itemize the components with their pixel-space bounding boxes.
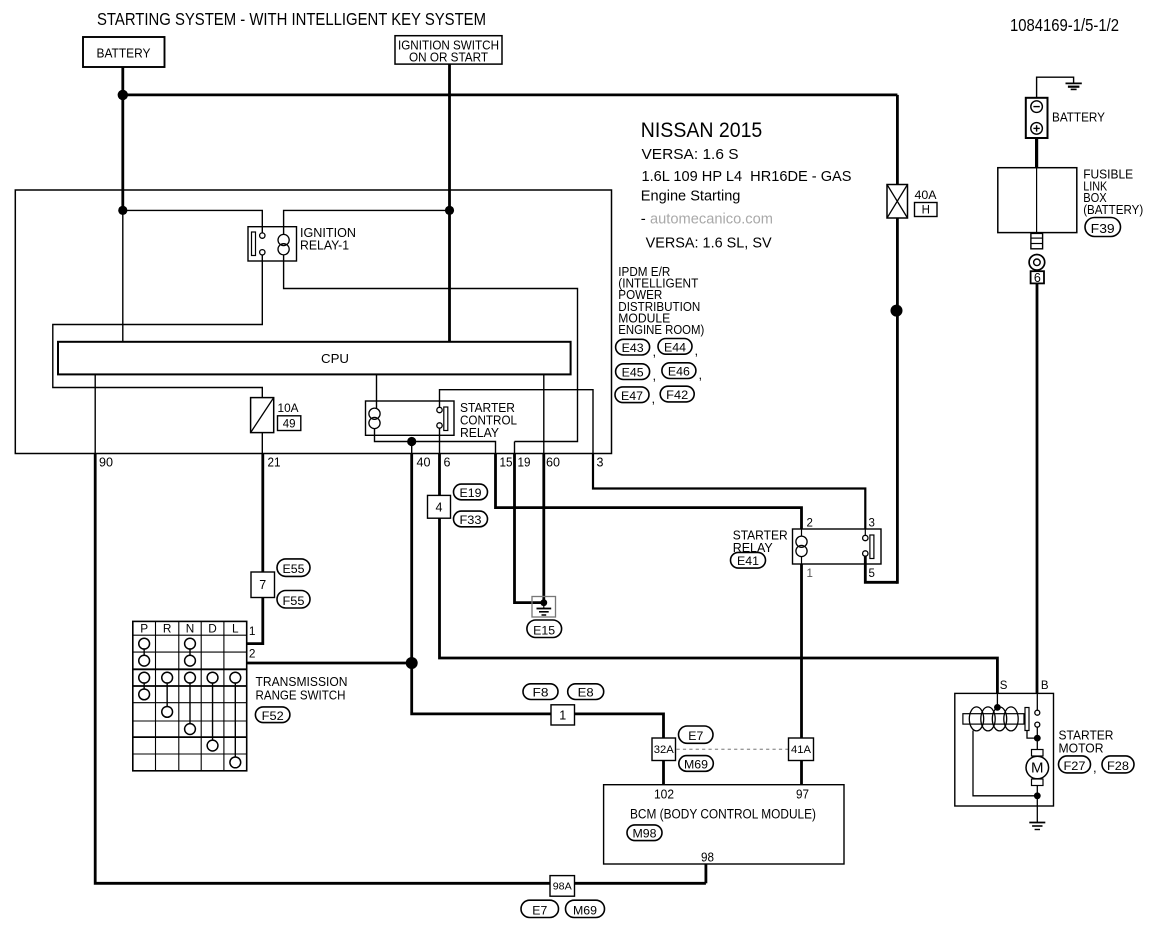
svg-text:1: 1	[807, 568, 813, 580]
starter relay contact pin lower	[863, 551, 868, 556]
starter motor ground symbol	[1029, 822, 1045, 824]
ground E15 symbol	[543, 603, 545, 609]
connector 4 box	[428, 495, 451, 518]
SCR contact pin lower	[437, 423, 442, 428]
svg-text:2: 2	[807, 518, 813, 530]
SCR contact bar	[444, 407, 448, 431]
svg-text:41A: 41A	[791, 744, 812, 756]
node ignition relay coil junction	[445, 206, 454, 215]
svg-text:E7: E7	[532, 903, 547, 917]
svg-text:,: ,	[653, 344, 657, 359]
fusible link box inner wire	[1036, 168, 1038, 233]
svg-text:M69: M69	[573, 903, 597, 917]
solenoid contact pin upper	[1035, 710, 1040, 715]
wire pin40 run	[410, 454, 413, 664]
svg-text:E55: E55	[283, 562, 305, 576]
wire battery to relay contact	[123, 210, 262, 233]
svg-text:E15: E15	[533, 623, 555, 637]
svg-text:STARTER: STARTER	[1059, 729, 1114, 743]
wire pin40 inside	[411, 442, 413, 454]
node TRS junction	[406, 657, 418, 669]
connector ref E47	[615, 387, 649, 403]
node battery junction	[118, 90, 128, 100]
svg-text:E8: E8	[578, 686, 594, 700]
svg-text:1084169-1/5-1/2: 1084169-1/5-1/2	[1010, 15, 1119, 35]
ground E15 node	[540, 599, 547, 606]
connector ref E15	[527, 620, 562, 638]
wire TRS pin2 to junction	[247, 662, 412, 665]
svg-text:6: 6	[1034, 271, 1041, 285]
svg-text:4: 4	[436, 500, 443, 514]
connector ref F42	[660, 386, 694, 402]
svg-text:N: N	[186, 621, 195, 635]
svg-text:F33: F33	[460, 513, 482, 527]
wire SCR contact lower to pin6	[439, 428, 441, 453]
svg-text:15: 15	[500, 456, 513, 470]
wire pin15 run	[496, 454, 802, 530]
connector ref F33	[454, 511, 488, 527]
connector ref E46	[662, 363, 696, 379]
wire plate to B node	[1027, 731, 1037, 739]
wire SCR coil return	[375, 428, 496, 453]
wire battery thin continue to CPU	[122, 210, 124, 341]
svg-text:STARTING SYSTEM - WITH INTELLI: STARTING SYSTEM - WITH INTELLIGENT KEY S…	[97, 9, 486, 29]
svg-text:TRANSMISSION: TRANSMISSION	[256, 675, 348, 689]
wire BCM pin98 drop	[705, 864, 708, 883]
wire relay contact output wrap	[53, 255, 262, 398]
svg-text:,: ,	[652, 391, 656, 406]
node battery tap	[118, 206, 127, 215]
node motor top	[1034, 735, 1041, 742]
svg-text:RELAY-1: RELAY-1	[300, 239, 349, 253]
svg-text:M98: M98	[633, 827, 657, 841]
connector H box	[915, 203, 938, 217]
svg-text:6: 6	[444, 456, 451, 470]
svg-text:BATTERY: BATTERY	[1052, 110, 1105, 125]
svg-text:Engine Starting: Engine Starting	[641, 188, 741, 204]
svg-text:BATTERY: BATTERY	[97, 45, 151, 60]
wire starter relay contact feed	[864, 529, 866, 535]
wire connector1 to 32A	[575, 714, 664, 738]
starter relay contact bar	[870, 535, 874, 559]
connector ref F8	[523, 684, 558, 700]
svg-text:F28: F28	[1107, 759, 1129, 773]
svg-text:F55: F55	[283, 594, 305, 608]
node motor bottom	[1034, 792, 1041, 799]
fuse H 40A symbol	[887, 185, 908, 219]
connector ref E44	[658, 339, 692, 355]
wire solenoid return loop	[973, 731, 1037, 796]
wire starter relay pin1 run	[800, 564, 803, 738]
wire S into solenoid	[996, 693, 998, 707]
svg-text:,: ,	[695, 343, 699, 358]
ignition relay contact pin lower	[260, 250, 265, 255]
connector 49 box	[278, 416, 301, 431]
svg-text:D: D	[208, 621, 217, 635]
svg-text:-: -	[641, 210, 646, 227]
wire pin6 run	[440, 454, 998, 695]
svg-text:E44: E44	[664, 340, 686, 354]
svg-text:MOTOR: MOTOR	[1059, 742, 1104, 756]
connector ref M69	[679, 756, 714, 772]
connector ref E7	[679, 726, 714, 743]
connector 1 box	[551, 705, 575, 725]
starter control relay box	[366, 401, 455, 435]
connector ref E19	[454, 484, 488, 500]
wire 10A fuse to pin21	[261, 433, 263, 454]
wire junction to connector1	[412, 663, 551, 714]
connector ref E45	[616, 364, 650, 380]
svg-text:E47: E47	[621, 389, 643, 403]
dashed link 32A-41A	[677, 748, 789, 750]
connector ref F27	[1059, 756, 1091, 773]
SCR contact pin upper	[437, 407, 442, 412]
svg-text:(BATTERY): (BATTERY)	[1083, 203, 1143, 217]
svg-text:E19: E19	[460, 486, 482, 500]
connector 7 box	[251, 572, 275, 598]
starter motor box	[955, 693, 1054, 806]
connector ref M98	[627, 825, 662, 841]
connector 6 box	[1031, 271, 1044, 283]
battery box (top left)	[83, 37, 165, 67]
svg-text:1.6L 109 HP L4 HR16DE - GAS: 1.6L 109 HP L4 HR16DE - GAS	[642, 169, 852, 185]
svg-text:automecanico.com: automecanico.com	[650, 210, 773, 227]
wire SCR contact upper to pin3	[440, 390, 594, 454]
svg-text:10A: 10A	[278, 401, 300, 415]
svg-text:2: 2	[249, 647, 256, 661]
svg-text:49: 49	[283, 418, 296, 430]
wire pin19 run	[515, 454, 544, 603]
svg-text:ON OR START: ON OR START	[409, 50, 488, 64]
wire B terminal drop	[1036, 693, 1038, 710]
svg-text:F42: F42	[666, 388, 688, 402]
wire relay coil to ignition node	[284, 210, 450, 234]
ignition relay contact bar	[252, 232, 256, 256]
motor M	[1036, 738, 1038, 749]
connector ref E55	[277, 559, 310, 577]
ignition relay contact pin upper	[260, 233, 265, 238]
svg-text:19: 19	[518, 456, 531, 470]
svg-text:NISSAN 2015: NISSAN 2015	[641, 118, 763, 142]
svg-text:32A: 32A	[654, 744, 675, 756]
svg-text:S: S	[1000, 680, 1008, 692]
wire battery to fusible link box	[1035, 138, 1038, 168]
svg-text:VERSA: 1.6 SL, SV: VERSA: 1.6 SL, SV	[646, 235, 772, 251]
svg-text:3: 3	[597, 456, 604, 470]
wire 41A to BCM	[800, 761, 803, 785]
connector ref F39	[1085, 218, 1121, 237]
starter relay contact pin upper	[863, 535, 868, 540]
BCM box	[604, 785, 844, 864]
node solenoid S	[994, 704, 1001, 711]
battery symbol box	[1026, 98, 1048, 138]
ignition relay coil	[278, 234, 289, 245]
wire 40A fuse to starter relay	[896, 218, 899, 584]
solenoid contact plate	[1025, 708, 1029, 731]
svg-text:L: L	[232, 621, 239, 635]
wire relay coil return	[284, 255, 578, 442]
TRS contact circles	[139, 638, 150, 649]
ring terminal symbol	[1029, 254, 1045, 270]
svg-text:R: R	[163, 621, 172, 635]
wire pin21 run	[247, 454, 263, 644]
wire B feed	[1036, 283, 1039, 694]
wire 40A fuse feed	[896, 95, 899, 185]
CPU box	[58, 342, 571, 375]
svg-text:F27: F27	[1064, 759, 1086, 773]
transmission range switch table grid	[133, 621, 247, 770]
svg-text:H: H	[922, 205, 930, 217]
svg-text:ENGINE ROOM): ENGINE ROOM)	[618, 323, 704, 337]
svg-text:98A: 98A	[553, 882, 572, 893]
svg-text:BCM (BODY CONTROL MODULE): BCM (BODY CONTROL MODULE)	[630, 806, 816, 821]
connector ref E41	[731, 552, 766, 568]
svg-text:F39: F39	[1091, 221, 1115, 236]
ignition switch box	[395, 36, 502, 64]
connector ref F28	[1102, 756, 1134, 773]
svg-text:21: 21	[268, 456, 281, 470]
battery ground symbol	[1066, 82, 1082, 84]
svg-text:E7: E7	[688, 729, 703, 743]
wire starter relay coil stubs	[801, 529, 803, 537]
fusible link connector hatch	[1031, 233, 1043, 248]
wire main bus horizontal	[123, 94, 898, 97]
connector 41A box	[789, 738, 814, 761]
svg-text:VERSA: 1.6 S: VERSA: 1.6 S	[642, 147, 739, 163]
svg-text:B: B	[1041, 680, 1049, 692]
connector 98A box	[550, 876, 575, 897]
svg-text:E41: E41	[737, 554, 759, 568]
wire starter relay pin5 link	[865, 556, 897, 582]
wire pin60 run	[542, 454, 545, 604]
wire contact to motor node	[1036, 727, 1038, 738]
svg-text:M: M	[1031, 760, 1044, 777]
SCR coil	[369, 408, 380, 419]
battery minus terminal	[1031, 101, 1043, 113]
wire ignition switch drop	[448, 64, 451, 342]
starter relay box	[793, 529, 882, 564]
svg-text:1: 1	[559, 708, 566, 722]
TRS contact links	[143, 649, 145, 655]
connector ref M69 bottom	[566, 900, 605, 917]
fusible link box	[998, 168, 1077, 233]
svg-text:7: 7	[259, 578, 266, 592]
ignition relay-1 box	[248, 227, 297, 261]
connector ref F52	[255, 707, 290, 723]
wire pin90 run	[95, 454, 706, 884]
solenoid coil and plunger	[963, 714, 1024, 724]
svg-text:,: ,	[653, 368, 657, 383]
svg-text:M69: M69	[684, 758, 708, 772]
svg-text:40A: 40A	[915, 188, 938, 202]
connector ref F55	[277, 591, 310, 609]
connector 32A box	[652, 738, 676, 761]
wire battery drop	[121, 67, 124, 210]
battery plus terminal	[1031, 123, 1043, 135]
svg-text:F52: F52	[262, 709, 284, 723]
svg-text:E43: E43	[622, 341, 644, 355]
wire 32A to BCM	[662, 761, 665, 785]
solenoid contact pin lower	[1035, 722, 1040, 727]
svg-text:P: P	[140, 621, 148, 635]
wire CPU to pin90	[94, 374, 96, 453]
svg-text:,: ,	[699, 367, 703, 382]
svg-text:90: 90	[99, 456, 113, 470]
connector ref E8	[568, 684, 604, 700]
svg-text:,: ,	[1093, 760, 1097, 775]
svg-text:60: 60	[546, 456, 560, 470]
connector ref E7 bottom	[521, 900, 559, 917]
battery ground wire	[1037, 77, 1074, 98]
connector ref E43	[616, 339, 650, 355]
fuse 49 10A symbol	[251, 398, 274, 433]
svg-text:102: 102	[654, 788, 674, 802]
svg-text:98: 98	[701, 850, 714, 864]
wire CPU to pin60	[543, 374, 545, 453]
wire motor ground	[1036, 796, 1038, 823]
node splice on 40A wire	[891, 305, 903, 317]
svg-text:5: 5	[869, 568, 875, 580]
svg-text:E45: E45	[622, 366, 644, 380]
svg-text:3: 3	[869, 518, 875, 530]
ground E15 box	[532, 597, 556, 618]
svg-text:E46: E46	[668, 365, 690, 379]
wire pin3 run	[593, 454, 865, 530]
node SCR return tap	[407, 437, 416, 446]
svg-text:97: 97	[796, 788, 809, 802]
svg-text:RELAY: RELAY	[460, 426, 500, 440]
wire CPU to SCR coil	[376, 374, 378, 408]
svg-text:40: 40	[417, 456, 431, 470]
svg-text:1: 1	[249, 624, 256, 638]
svg-text:F8: F8	[533, 686, 549, 700]
svg-text:RANGE SWITCH: RANGE SWITCH	[256, 689, 346, 703]
starter relay coil	[796, 536, 807, 547]
svg-text:CPU: CPU	[321, 351, 349, 366]
IPDM E/R box	[15, 190, 611, 454]
